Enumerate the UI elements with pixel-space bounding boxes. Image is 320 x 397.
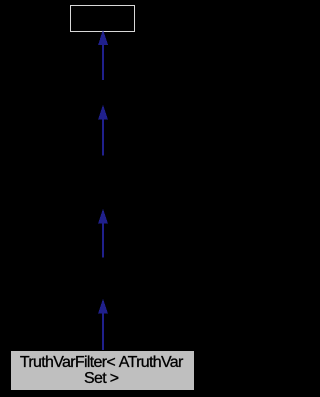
inheritance arrows (0, 0, 205, 397)
node: TruthVarFilter< ATruthVarSet > (gray box) (10, 350, 194, 391)
arrow 4 (from TruthVarFilter box) (98, 299, 108, 352)
arrow 1 (to base box) (98, 30, 108, 80)
arrow 3 (98, 209, 108, 258)
arrow 2 (98, 105, 108, 156)
label: TruthVarFilter< ATruthVarSet > (11, 355, 194, 386)
node: base class (empty box, light border) (70, 5, 135, 32)
